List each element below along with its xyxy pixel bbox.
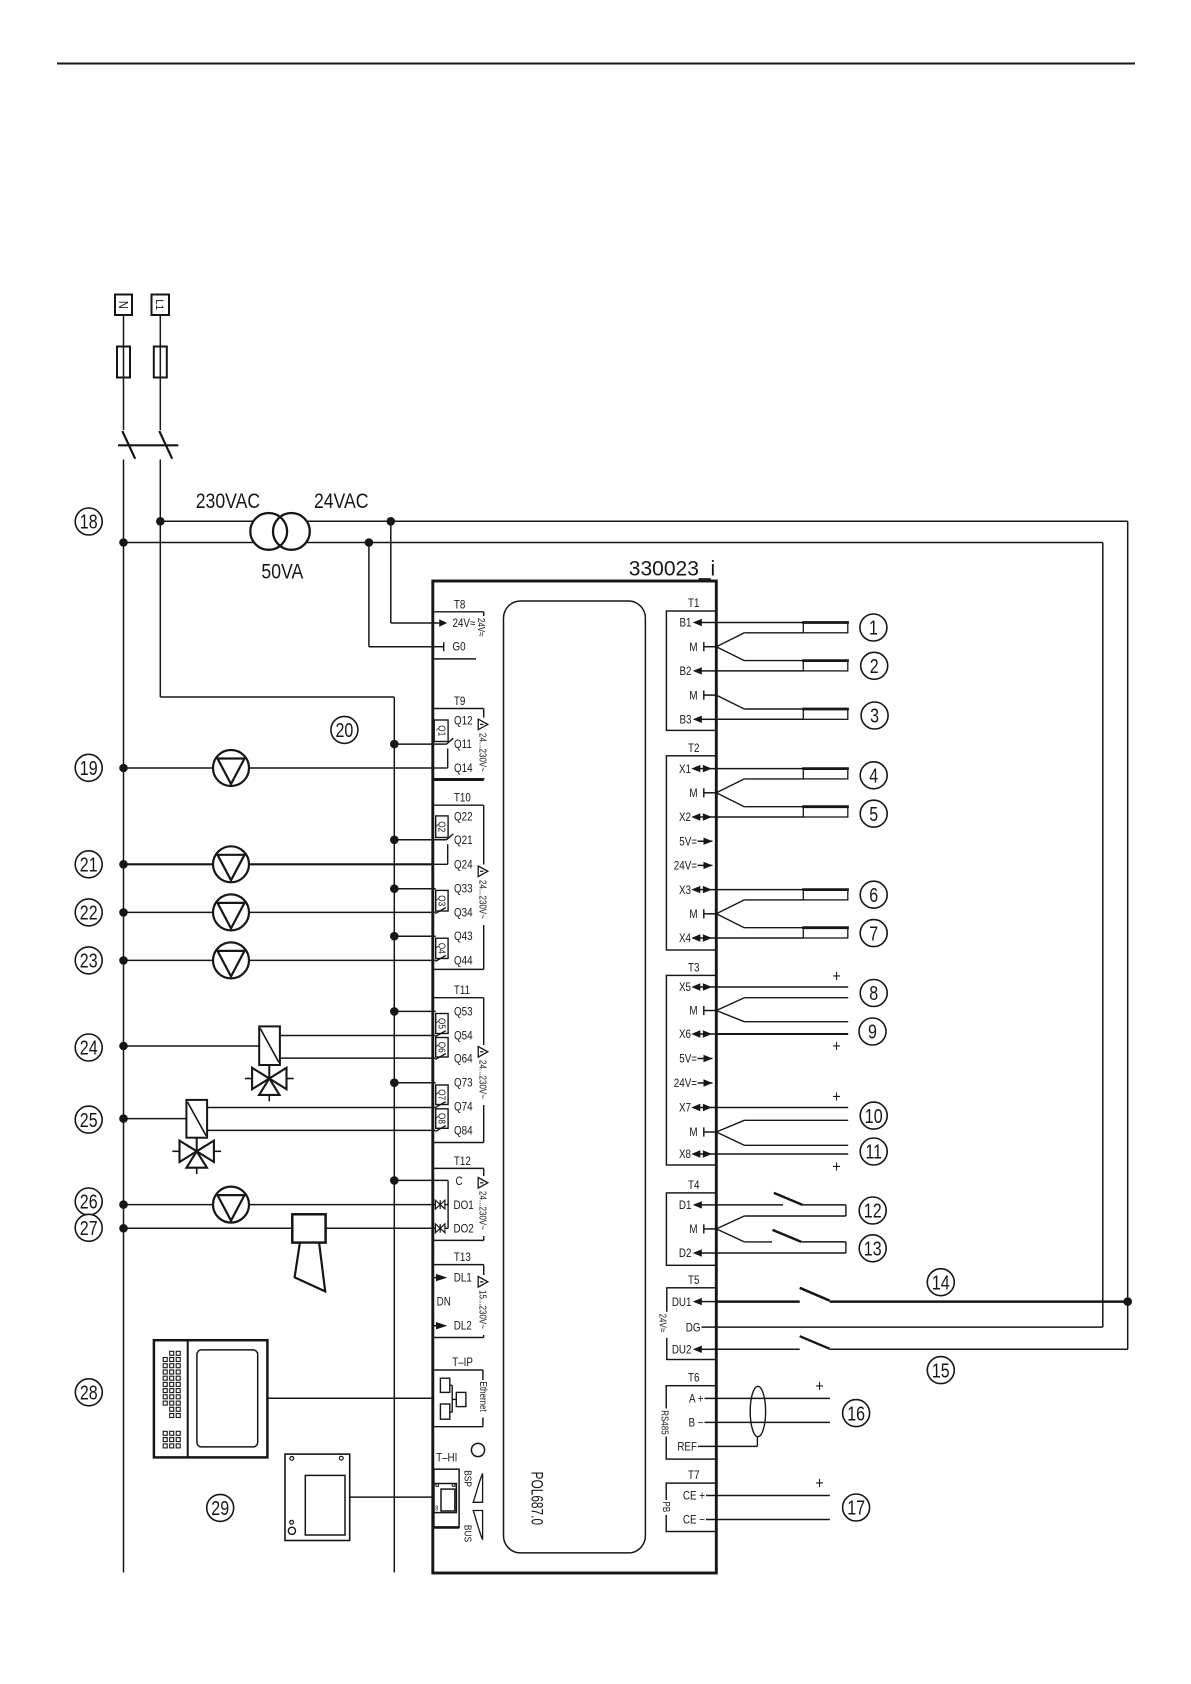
svg-text:POL687.0: POL687.0	[527, 1472, 546, 1526]
svg-text:Q33: Q33	[454, 883, 473, 896]
svg-text:B2: B2	[679, 665, 691, 678]
svg-text:T6: T6	[688, 1372, 699, 1385]
label voltage range T13	[477, 1288, 488, 1335]
callout 10	[860, 1102, 887, 1129]
pin M (T4)	[689, 1223, 716, 1236]
wire display to Ethernet port	[267, 1397, 433, 1399]
callout 28	[75, 1379, 102, 1406]
junction N pump21	[119, 860, 128, 869]
junction N valve24	[119, 1042, 128, 1051]
svg-text:T5: T5	[688, 1274, 699, 1287]
cable shield ellipse	[750, 1386, 765, 1436]
wire pump21 to Q24	[124, 863, 434, 865]
label voltage range T12	[477, 1189, 488, 1236]
pin Q14	[454, 762, 473, 775]
ethernet port icon	[440, 1378, 466, 1419]
wire L1 down to corner	[159, 460, 161, 698]
svg-text:Q21: Q21	[454, 834, 473, 847]
junction N pump22	[119, 908, 128, 917]
terminal block T13 bracket	[434, 1265, 484, 1338]
warning triangle T10	[477, 865, 489, 879]
relay Q5	[435, 1014, 448, 1037]
svg-text:Q7: Q7	[436, 1089, 447, 1100]
sensor 7	[802, 928, 849, 938]
pin Q34	[454, 907, 473, 920]
label + below X8	[832, 1158, 840, 1176]
display unit HMI	[154, 1340, 268, 1457]
fuse F1 (N)	[117, 347, 130, 378]
wire CE-	[716, 1519, 830, 1521]
relay Q8	[435, 1109, 448, 1132]
wire valve25 to Q74	[207, 1107, 435, 1109]
svg-text:T12: T12	[454, 1155, 471, 1168]
label BUS	[461, 1525, 473, 1542]
label voltage T8	[476, 616, 487, 666]
svg-text:26: 26	[80, 1191, 98, 1213]
svg-text:24...230V~: 24...230V~	[477, 1060, 488, 1099]
callout 26	[75, 1188, 102, 1215]
svg-text:Q3: Q3	[436, 895, 447, 906]
svg-text:X2: X2	[679, 811, 691, 824]
pin X1	[679, 763, 716, 776]
pin Q22	[454, 811, 473, 824]
svg-text:24V≈: 24V≈	[453, 617, 476, 630]
callout 29	[207, 1494, 234, 1521]
svg-text:+: +	[815, 1377, 823, 1395]
wire to valve25 actuator	[124, 1118, 187, 1120]
svg-text:Q34: Q34	[454, 907, 473, 920]
svg-text:T2: T2	[688, 742, 699, 755]
pin M (B1/B2)	[689, 641, 716, 654]
svg-text:X6: X6	[679, 1028, 691, 1041]
pin M (X3/X4)	[689, 908, 716, 921]
svg-text:DO1: DO1	[454, 1199, 474, 1212]
svg-text:DN: DN	[437, 1296, 451, 1309]
svg-text:20: 20	[335, 719, 353, 741]
svg-text:5V=: 5V=	[679, 1053, 697, 1066]
label PB	[661, 1500, 672, 1515]
T-HI connector	[434, 1469, 459, 1527]
label + below X6	[832, 1037, 840, 1055]
wire M fan X5	[716, 998, 848, 1011]
svg-text:M: M	[689, 787, 697, 800]
label RS485	[659, 1409, 671, 1437]
wire DG	[716, 1326, 1103, 1328]
transformer TR1 50VA	[250, 513, 309, 550]
label T1	[688, 597, 699, 610]
label 24V~ (T5)	[657, 1312, 672, 1338]
label T5	[688, 1274, 699, 1287]
terminal block T8 bracket	[434, 612, 484, 659]
pin Q44	[454, 955, 473, 968]
wire L1 horizontal to relay bus	[160, 696, 394, 698]
pin 24V=	[674, 860, 713, 873]
terminal label N	[115, 295, 132, 316]
wire to valve24 actuator	[124, 1045, 260, 1047]
wire X3 to sensor6	[716, 889, 803, 891]
top horizontal rule	[57, 63, 1135, 65]
valve V25 three-way body	[172, 1138, 221, 1174]
callout 4	[860, 762, 887, 789]
svg-text:Q6: Q6	[436, 1042, 447, 1053]
svg-text:27: 27	[80, 1217, 98, 1239]
svg-text:22: 22	[80, 902, 98, 924]
wire 230VAC neutral line	[124, 542, 1103, 544]
pin B1	[679, 617, 716, 630]
wire bus to Q11	[390, 740, 447, 749]
svg-text:CE +: CE +	[683, 1490, 705, 1503]
label 50VA	[261, 560, 303, 584]
terminal block T6	[666, 1386, 716, 1459]
terminal block T7	[666, 1483, 716, 1531]
sensor 4	[802, 769, 849, 779]
svg-text:CE −: CE −	[683, 1514, 705, 1527]
BUS wing	[473, 1511, 482, 1540]
svg-text:T9: T9	[454, 695, 465, 708]
svg-text:Q43: Q43	[454, 930, 473, 943]
wire pump22 to Q34	[124, 911, 436, 913]
triac DO1	[435, 1200, 445, 1209]
warning triangle T12	[477, 1176, 489, 1190]
svg-text:17: 17	[847, 1497, 865, 1519]
callout 13	[859, 1235, 886, 1262]
pin Q33	[454, 883, 473, 896]
wire M fan X7	[716, 1120, 848, 1132]
wire M fan sensor3	[716, 695, 803, 709]
svg-text:T13: T13	[454, 1251, 471, 1264]
callout 24	[75, 1034, 102, 1061]
wire B1 to sensor1	[716, 622, 803, 624]
svg-text:5V=: 5V=	[679, 836, 697, 849]
internal rail C-DO1-DO2	[445, 1180, 448, 1228]
label T10	[454, 792, 471, 805]
junction N/neutral	[119, 538, 128, 547]
callout 18	[75, 508, 102, 535]
svg-text:BSP: BSP	[461, 1470, 473, 1487]
svg-text:Q73: Q73	[454, 1077, 473, 1090]
svg-text:+: +	[832, 1037, 840, 1055]
svg-text:X8: X8	[679, 1148, 691, 1161]
label + (RS485)	[815, 1377, 823, 1395]
pin Q84	[454, 1125, 473, 1138]
pump P23	[213, 942, 249, 978]
svg-text:330023_i: 330023_i	[629, 558, 715, 581]
pin X6	[679, 1028, 716, 1041]
label 330023_i	[629, 558, 715, 581]
pump P22	[213, 894, 249, 930]
pin M (X1/X2)	[689, 787, 716, 800]
junction N valve25	[119, 1114, 128, 1123]
junction N pump26	[119, 1200, 128, 1209]
wire M fan sensor4	[716, 779, 803, 793]
callout 25	[75, 1106, 102, 1133]
label BSP	[461, 1470, 473, 1487]
svg-text:24...230V~: 24...230V~	[477, 880, 488, 919]
pump P26	[213, 1187, 249, 1223]
label Ethernet	[477, 1380, 488, 1418]
switch contact 13	[716, 1229, 846, 1253]
pin Q54	[454, 1030, 473, 1043]
wire M fan sensor2	[716, 647, 803, 661]
svg-text:24V≈: 24V≈	[657, 1314, 668, 1333]
svg-text:Q22: Q22	[454, 811, 473, 824]
svg-text:M: M	[689, 1005, 697, 1018]
wire 24V tap down to T8	[391, 521, 433, 623]
pin Q73	[454, 1077, 473, 1090]
svg-text:5: 5	[869, 803, 878, 825]
callout 17	[843, 1494, 870, 1521]
terminal block T3	[666, 975, 716, 1165]
pin B-	[688, 1417, 716, 1430]
svg-text:X3: X3	[679, 884, 691, 897]
svg-text:T7: T7	[688, 1469, 699, 1482]
svg-text:6: 6	[869, 884, 878, 906]
BSP LED	[471, 1443, 484, 1456]
pin Q64	[454, 1053, 473, 1066]
wire A+	[716, 1397, 830, 1399]
sensor 2	[802, 661, 849, 671]
callout 15	[927, 1357, 954, 1384]
svg-text:7: 7	[869, 923, 878, 945]
wire valve24 to Q54	[280, 1035, 435, 1037]
svg-text:M: M	[689, 641, 697, 654]
callout 19	[75, 754, 102, 781]
wire B3 to sensor3	[716, 718, 803, 720]
callout 27	[75, 1214, 102, 1241]
svg-text:M: M	[689, 1223, 697, 1236]
T-IP bracket	[434, 1370, 483, 1427]
pin DL2	[433, 1320, 472, 1333]
svg-text:14: 14	[932, 1272, 950, 1294]
label 230VAC	[196, 490, 260, 514]
pin D1	[679, 1199, 716, 1212]
svg-text:24V=: 24V=	[674, 1077, 697, 1090]
pin X7	[679, 1102, 716, 1115]
svg-text:C: C	[456, 1175, 463, 1188]
junction G0 tap	[365, 538, 374, 547]
wire M fan X8	[716, 1132, 848, 1145]
relay Q7	[435, 1085, 448, 1108]
pin X5	[679, 981, 716, 994]
junction 24V supply tap	[387, 517, 396, 526]
label voltage range T11	[477, 1058, 488, 1105]
pin X3	[679, 884, 716, 897]
wire N bus vertical	[123, 460, 125, 1573]
label voltage range T9	[477, 731, 488, 778]
pin M (B3)	[689, 690, 716, 703]
terminal block T1	[666, 611, 716, 730]
svg-text:PB: PB	[661, 1502, 672, 1513]
callout 1	[860, 614, 887, 641]
pin Q21	[454, 834, 473, 847]
svg-text:T3: T3	[688, 962, 699, 975]
svg-text:Q8: Q8	[436, 1113, 447, 1124]
svg-text:12: 12	[864, 1200, 882, 1222]
pin X8	[679, 1148, 716, 1161]
svg-text:D1: D1	[679, 1199, 692, 1212]
callout 9	[859, 1018, 886, 1045]
svg-text:X5: X5	[679, 981, 691, 994]
pin DN	[437, 1296, 451, 1309]
label T8	[454, 599, 465, 612]
svg-text:1: 1	[869, 617, 878, 639]
sensor 6	[802, 890, 849, 900]
label T11	[454, 984, 470, 997]
valve V24 three-way body	[245, 1065, 294, 1101]
wire valve24 to Q64	[280, 1057, 435, 1059]
junction L1/primary	[156, 517, 165, 526]
wire M fan X6	[716, 1011, 848, 1022]
label T7	[688, 1469, 699, 1482]
relay Q3	[435, 890, 448, 913]
svg-text:X4: X4	[679, 932, 691, 945]
wire bus to Q43	[390, 932, 436, 941]
wire bus to Q73	[390, 1078, 436, 1087]
svg-text:T–IP: T–IP	[452, 1356, 473, 1369]
svg-text:RS485: RS485	[659, 1410, 670, 1434]
pin REF	[677, 1441, 716, 1454]
wire CE+	[716, 1495, 830, 1497]
callout 20	[331, 716, 358, 743]
wire 24V right vertical to DU1/DU2	[1127, 521, 1129, 1349]
wire L1 to fuse	[159, 315, 161, 347]
pin DG	[686, 1322, 717, 1335]
svg-text:Q5: Q5	[436, 1018, 447, 1029]
svg-text:16: 16	[847, 1403, 865, 1425]
svg-text:25: 25	[80, 1109, 98, 1131]
svg-text:8: 8	[869, 983, 878, 1005]
callout 7	[860, 920, 887, 947]
pin DO1	[454, 1199, 474, 1212]
label 24VAC	[314, 490, 369, 514]
service tool box	[285, 1454, 350, 1540]
pin 5V=	[679, 836, 712, 849]
label T-HI	[436, 1452, 457, 1465]
pin X2	[679, 811, 716, 824]
terminal label L1	[152, 295, 170, 316]
svg-text:B3: B3	[679, 714, 691, 727]
wire M fan sensor6	[716, 900, 803, 914]
wire pump26 to DO1	[124, 1204, 436, 1206]
svg-text:50VA: 50VA	[261, 560, 303, 584]
wire DU2 with switch 15	[716, 1336, 1127, 1349]
pin C	[456, 1175, 463, 1188]
svg-text:DL1: DL1	[454, 1272, 472, 1285]
label T13	[454, 1251, 471, 1264]
callout 2	[861, 652, 888, 679]
wire X2 to sensor5	[716, 816, 803, 818]
wire bus to Q33	[390, 884, 436, 893]
svg-text:L1: L1	[153, 299, 166, 310]
pin M (X7/X8)	[689, 1126, 716, 1139]
label T4	[688, 1179, 699, 1192]
svg-text:8: 8	[435, 1505, 439, 1513]
wire X1 to sensor4	[716, 768, 803, 770]
warning triangle T9	[477, 718, 489, 732]
callout 8	[860, 980, 887, 1007]
svg-text:M: M	[689, 1126, 697, 1139]
relay Q4	[435, 938, 448, 961]
pin 24V= (T3)	[674, 1077, 713, 1090]
svg-text:11: 11	[865, 1141, 882, 1163]
callout 16	[843, 1400, 870, 1427]
wire M fan sensor5	[716, 793, 803, 807]
sensor 5	[802, 807, 849, 817]
svg-text:+: +	[832, 1088, 840, 1106]
svg-text:T8: T8	[454, 599, 465, 612]
pin D2	[679, 1247, 716, 1260]
pin Q24	[454, 859, 473, 872]
svg-text:DU1: DU1	[672, 1296, 692, 1309]
svg-text:4: 4	[869, 765, 878, 787]
wire X6 active sensor	[716, 1033, 848, 1035]
pin Q53	[454, 1006, 473, 1019]
alarm horn H27	[292, 1214, 325, 1291]
relay Q6	[435, 1038, 448, 1060]
svg-text:Ethernet: Ethernet	[478, 1382, 489, 1413]
label T-IP	[452, 1356, 473, 1369]
svg-text:DL2: DL2	[454, 1320, 472, 1333]
svg-text:24V=: 24V=	[674, 860, 697, 873]
svg-text:Q64: Q64	[454, 1053, 473, 1066]
wire REF to shield	[716, 1437, 757, 1447]
pin CE-	[683, 1514, 716, 1527]
callout 22	[75, 899, 102, 926]
svg-text:9: 9	[868, 1021, 877, 1043]
label + above X7	[832, 1088, 840, 1106]
wire 230VAC primary line	[160, 520, 1127, 522]
callout 23	[75, 947, 102, 974]
fuse F2 (L1)	[154, 347, 167, 378]
svg-text:BUS: BUS	[461, 1525, 473, 1542]
svg-text:Q84: Q84	[454, 1125, 473, 1138]
svg-text:+: +	[832, 967, 840, 985]
wire horn27 to DO2	[124, 1227, 436, 1229]
svg-text:T1: T1	[688, 597, 699, 610]
svg-text:24VAC: 24VAC	[314, 490, 369, 514]
callout 14	[927, 1269, 954, 1296]
label T6	[688, 1372, 699, 1385]
svg-text:28: 28	[80, 1382, 98, 1404]
svg-text:T11: T11	[454, 984, 470, 997]
junction N pump19	[119, 764, 128, 773]
svg-text:24V≈: 24V≈	[476, 618, 487, 637]
svg-text:Q1: Q1	[436, 725, 447, 736]
wire bus to Q21	[390, 836, 447, 845]
svg-text:23: 23	[80, 950, 98, 972]
svg-text:24...230V~: 24...230V~	[477, 1191, 488, 1230]
label + above X5	[832, 967, 840, 985]
wire M fan sensor1	[716, 633, 803, 647]
svg-text:15...230V~: 15...230V~	[477, 1290, 488, 1329]
label voltage range T10	[477, 878, 488, 925]
svg-text:Q54: Q54	[454, 1030, 473, 1043]
pin B3	[679, 714, 716, 727]
pump P19	[213, 750, 249, 786]
wire N to fuse	[123, 315, 125, 347]
svg-text:230VAC: 230VAC	[196, 490, 260, 514]
wire X4 to sensor7	[716, 937, 803, 939]
pin A+	[689, 1393, 716, 1406]
callout 11	[860, 1138, 887, 1165]
pin Q43	[454, 930, 473, 943]
wire relay supply bus vertical	[393, 697, 395, 1573]
pump P21	[213, 846, 249, 882]
junction N horn27	[119, 1224, 128, 1233]
svg-text:Q53: Q53	[454, 1006, 473, 1019]
wire X7 active sensor	[716, 1107, 848, 1109]
label T2	[688, 742, 699, 755]
